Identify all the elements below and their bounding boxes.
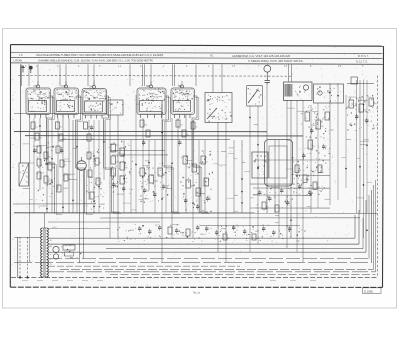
wire [93, 120, 95, 213]
wire [39, 118, 41, 190]
tube V4 detector [137, 81, 166, 118]
scan wash [11, 45, 383, 287]
lower-right cluster [256, 185, 293, 212]
wire [98, 120, 100, 213]
drawing number label D1950 [363, 288, 382, 294]
grid wires header to stages [22, 64, 197, 86]
bottom margin tick dashes [22, 280, 316, 282]
wire [68, 118, 70, 213]
IF component cluster A [109, 141, 133, 195]
pilot lamp L2 [53, 254, 58, 259]
wire [192, 120, 194, 238]
wire [117, 115, 119, 238]
title column ticks [25, 65, 364, 68]
wire [165, 96, 167, 213]
wire [48, 228, 110, 230]
shield wire bundle S1 [47, 96, 63, 215]
wire [110, 149, 165, 151]
bus line 1 [48, 237, 355, 239]
wire [366, 80, 368, 213]
wire [46, 118, 48, 213]
inner frame left vertical [17, 237, 19, 278]
wire [356, 80, 358, 213]
wire [25, 135, 303, 137]
wire [290, 100, 292, 238]
rectifier block [314, 84, 344, 103]
wire [100, 217, 360, 219]
antenna coil block hatched [284, 82, 313, 101]
loudspeaker box [19, 163, 29, 186]
bus line 8 [60, 268, 374, 270]
wire [296, 100, 298, 252]
title block rule 2 [11, 57, 383, 58]
bus right corner verticals [355, 180, 376, 272]
bus line 6 [14, 262, 372, 264]
wire [130, 140, 132, 213]
wire [171, 118, 173, 238]
AVC bus wire y131 [14, 131, 267, 133]
svg-text:B. P. N. 7.: B. P. N. 7. [358, 54, 369, 58]
wire [161, 104, 163, 262]
wire [185, 115, 187, 213]
tube V6 rectifier box [252, 152, 268, 178]
tuning gang capacitor [247, 86, 263, 107]
wire [123, 140, 125, 213]
right mid cluster D [86, 150, 104, 213]
wire [310, 105, 312, 213]
wire [257, 106, 259, 244]
wire [88, 120, 90, 200]
wire [13, 203, 96, 205]
title block rule 1 [11, 52, 383, 53]
wire [241, 140, 243, 213]
output stage cluster [301, 106, 333, 169]
wire [217, 122, 219, 252]
wire [250, 207, 330, 209]
wire [109, 115, 111, 238]
wire [148, 140, 150, 190]
wire [337, 83, 339, 200]
svg-text:RL.: RL. [210, 54, 214, 58]
wire [60, 138, 230, 140]
phono jack circle J1 [264, 64, 271, 80]
svg-text:VUN: VUN [130, 230, 135, 232]
shield wire bundle S2 [76, 96, 94, 215]
svg-text:Fig. 1a: Fig. 1a [193, 291, 201, 295]
wire [278, 140, 280, 238]
svg-text:N. 12. T. S.: N. 12. T. S. [356, 59, 368, 63]
bus line 4 [48, 251, 366, 253]
bus labels [50, 240, 53, 266]
wire [103, 120, 105, 180]
bus line 3 [106, 248, 363, 250]
band switch box S1 [205, 64, 232, 122]
wire [33, 118, 35, 213]
shield wire bundle S5 [192, 96, 210, 214]
wire [51, 118, 53, 213]
mains cord dashed pair [14, 237, 41, 278]
pilot lamp L1 [53, 246, 59, 252]
svg-text:ALIMENTAZ. C.A. VOLT 110-125-1: ALIMENTAZ. C.A. VOLT 110-125-140-160-220 [232, 54, 291, 58]
volume control cluster [36, 142, 71, 201]
wire [345, 95, 347, 188]
wire [253, 194, 310, 196]
detector cluster C [180, 150, 213, 214]
tube V3 IF amplifier [82, 82, 107, 119]
wire [154, 140, 156, 213]
title text row 2 [14, 58, 368, 63]
wire [347, 82, 374, 84]
wire [142, 118, 144, 213]
svg-text:L ROW.: L ROW. [14, 58, 23, 62]
short connector segments [23, 97, 372, 229]
mid-right cluster [293, 159, 325, 196]
svg-text:V. MEDIA FREQ. KC/S. 468 TAR: V. MEDIA FREQ. KC/S. 468 TARAT. 600 KC. [248, 59, 304, 63]
title text row 1 [19, 53, 369, 58]
svg-text:D.1950: D.1950 [364, 289, 373, 293]
wire [204, 140, 206, 213]
wire antenna feed [20, 65, 22, 164]
shield wire bundle S3 [104, 96, 122, 214]
bus line 2 [48, 243, 359, 245]
wire [295, 174, 330, 176]
tube V2 mixer [54, 81, 79, 118]
B+ bus wire y136 [25, 135, 303, 137]
row ticks left margin [12, 79, 14, 266]
wire [48, 221, 160, 223]
wire [250, 183, 295, 185]
chassis dashed right edge [377, 76, 379, 278]
wire [112, 154, 168, 156]
tube V1 RF amplifier [26, 81, 51, 118]
wire [233, 140, 235, 213]
tube V5 output [171, 81, 195, 118]
wire [266, 82, 268, 213]
wire [286, 100, 288, 248]
component columns under stages [31, 120, 199, 154]
ground terminal E [29, 66, 32, 73]
outer border frame [10, 45, 383, 288]
bus line 7 [48, 265, 240, 267]
wire [198, 140, 200, 213]
svg-text:0W: 0W [321, 126, 324, 128]
top-right filter cluster [346, 77, 377, 134]
fuse box F1 [61, 245, 81, 259]
bus line 9 [48, 271, 376, 273]
wire [225, 122, 227, 262]
wire [291, 64, 293, 82]
main earth bus y213 [14, 212, 377, 214]
bus line 5 [48, 258, 369, 260]
svg-text:GAMME-WELLEN-BANDS: C.M. 16.5-: GAMME-WELLEN-BANDS: C.M. 16.5-50 / O.M.-… [38, 59, 153, 63]
wire [288, 64, 290, 82]
wire [329, 83, 331, 205]
wire [363, 80, 365, 238]
wire [14, 113, 107, 115]
wire [359, 80, 361, 213]
svg-text:VALVOLE-ROHRE-TUBES 6TE7: 6A7-: VALVOLE-ROHRE-TUBES 6TE7: 6A7-6D6-6B7-76… [36, 53, 164, 57]
wire [255, 159, 330, 161]
svg-text:TW: TW [374, 103, 377, 105]
wire [29, 118, 31, 262]
title block rule 3 [11, 63, 383, 64]
inner frame bottom dashed [11, 277, 378, 279]
wire [14, 131, 267, 133]
wire [274, 140, 276, 213]
wire [177, 118, 179, 213]
paper grain noise [13, 46, 382, 287]
wire [302, 100, 304, 262]
wire [249, 106, 251, 252]
wire [317, 103, 319, 208]
wire [62, 118, 64, 213]
wire [76, 120, 78, 213]
shield wire bundle S4 [163, 96, 181, 214]
tube V7 triode circle [77, 157, 87, 263]
power transformer T1 [41, 213, 49, 277]
wire [253, 187, 330, 189]
AVC cluster B [139, 163, 171, 203]
wire [72, 120, 74, 213]
bottom component band [117, 224, 305, 243]
bus line 10 [110, 274, 376, 276]
wire [200, 225, 300, 227]
wire [135, 95, 137, 213]
IF transformer box T2 [107, 100, 123, 115]
capacitor C20 [265, 80, 271, 82]
shielded block [265, 140, 293, 187]
antenna terminal A1 [21, 66, 25, 73]
chassis dashed line top [18, 74, 292, 77]
wire [57, 118, 59, 190]
